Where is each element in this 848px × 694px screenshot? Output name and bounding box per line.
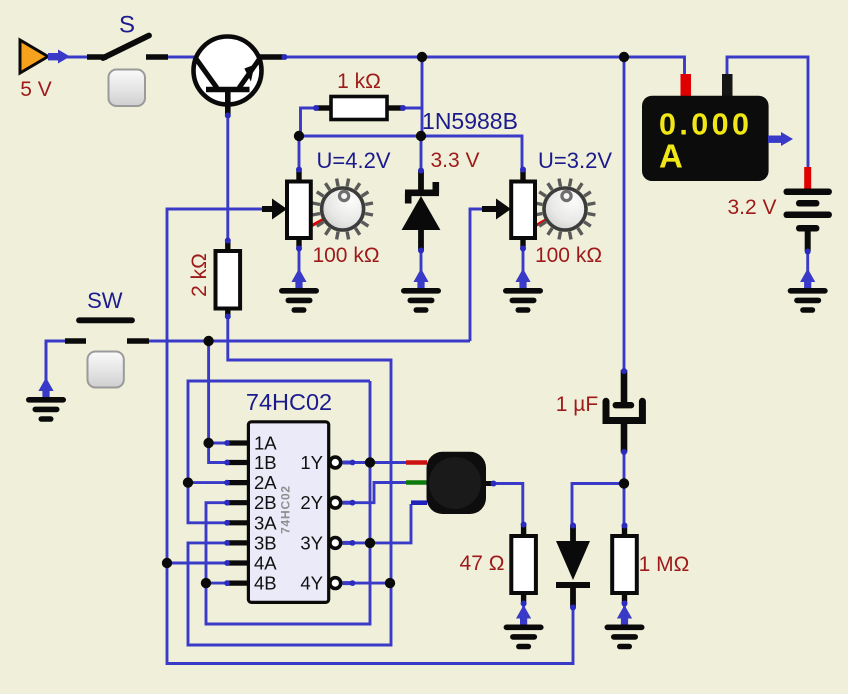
svg-text:1B: 1B (254, 452, 277, 473)
svg-text:U=3.2V: U=3.2V (538, 148, 612, 173)
svg-text:3A: 3A (254, 512, 277, 533)
svg-text:S: S (119, 12, 135, 39)
svg-text:4A: 4A (254, 553, 277, 574)
svg-text:1A: 1A (254, 433, 277, 454)
svg-text:U=4.2V: U=4.2V (317, 148, 391, 173)
svg-text:3.3 V: 3.3 V (430, 149, 479, 172)
svg-text:2A: 2A (254, 472, 277, 493)
svg-text:1 µF: 1 µF (556, 393, 598, 416)
svg-text:100 kΩ: 100 kΩ (312, 244, 379, 267)
svg-text:3.2 V: 3.2 V (727, 196, 776, 219)
svg-text:74HC02: 74HC02 (246, 389, 332, 415)
svg-text:2Y: 2Y (300, 492, 323, 513)
svg-text:47 Ω: 47 Ω (460, 552, 505, 575)
svg-text:A: A (659, 138, 683, 175)
svg-text:1N5988B: 1N5988B (422, 108, 518, 134)
svg-text:3Y: 3Y (300, 532, 323, 553)
svg-text:1Y: 1Y (300, 452, 323, 473)
svg-text:SW: SW (87, 288, 123, 313)
svg-text:74HC02: 74HC02 (279, 485, 293, 534)
svg-text:5 V: 5 V (20, 78, 52, 101)
svg-text:2 kΩ: 2 kΩ (188, 253, 211, 297)
svg-text:1 kΩ: 1 kΩ (337, 70, 381, 93)
svg-text:1 MΩ: 1 MΩ (639, 553, 690, 576)
svg-text:100 kΩ: 100 kΩ (535, 244, 602, 267)
svg-text:4Y: 4Y (300, 573, 323, 594)
svg-text:3B: 3B (254, 532, 277, 553)
svg-text:2B: 2B (254, 492, 277, 513)
svg-text:0.000: 0.000 (659, 108, 752, 142)
svg-text:4B: 4B (254, 573, 277, 594)
